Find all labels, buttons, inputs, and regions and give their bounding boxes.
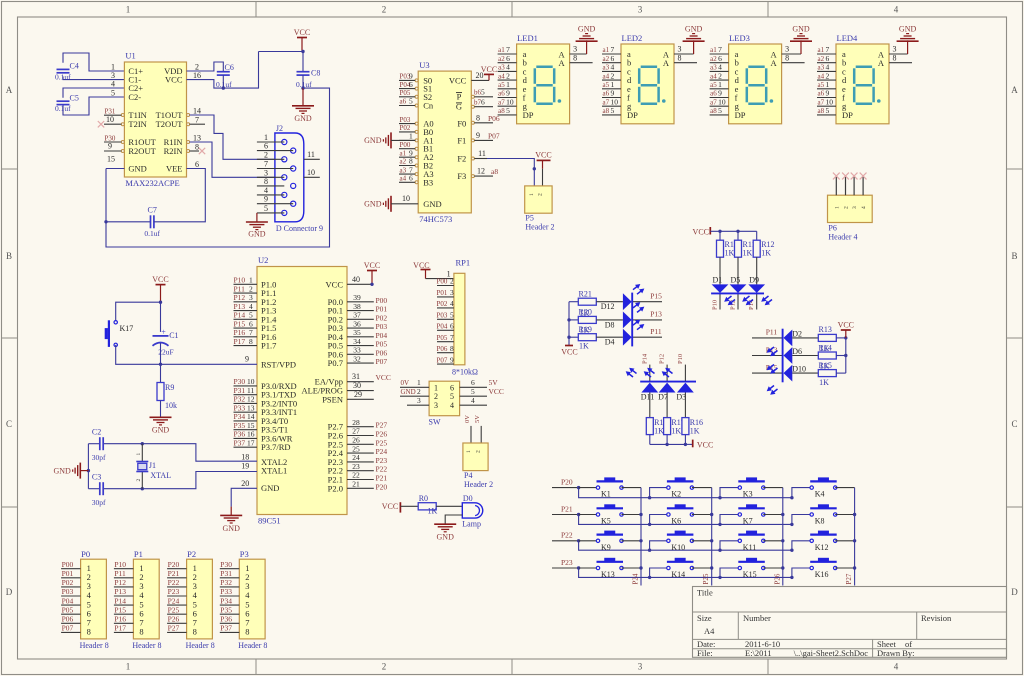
svg-text:6: 6: [409, 174, 413, 183]
svg-text:P31: P31: [234, 386, 246, 395]
svg-text:GND: GND: [53, 466, 71, 475]
svg-text:4: 4: [471, 396, 475, 405]
svg-text:D Connector 9: D Connector 9: [276, 224, 323, 233]
J2 pin stubs: [257, 133, 320, 213]
svg-text:D: D: [6, 587, 13, 597]
switch K5: [579, 504, 624, 525]
svg-text:1K: 1K: [820, 362, 830, 371]
svg-text:Title: Title: [697, 588, 713, 598]
svg-text:8: 8: [893, 53, 897, 62]
wire C4 to U1 pin1: [63, 53, 124, 71]
node P12 at D7: [659, 354, 668, 382]
wire K15 to column: [763, 566, 784, 569]
svg-text:VCC: VCC: [693, 227, 709, 236]
dip switch SW: [429, 381, 460, 426]
svg-text:P01: P01: [62, 569, 74, 578]
wire C8 junction to right GND leg: [106, 88, 330, 247]
wire K2 to column: [692, 487, 712, 489]
svg-text:GND: GND: [364, 136, 382, 145]
svg-text:1: 1: [529, 193, 535, 196]
svg-text:F0: F0: [457, 119, 466, 129]
svg-text:J1: J1: [149, 461, 156, 470]
svg-text:89C51: 89C51: [258, 516, 281, 526]
svg-text:VCC: VCC: [413, 261, 429, 270]
svg-text:1K: 1K: [819, 378, 829, 387]
svg-text:2: 2: [417, 387, 421, 396]
svg-text:K10: K10: [671, 543, 685, 552]
U2 ALE pin stub: [347, 381, 374, 391]
resistor R21: [569, 290, 596, 306]
svg-text:P00: P00: [62, 560, 74, 569]
header P1: [132, 549, 161, 650]
svg-text:3: 3: [852, 206, 858, 209]
svg-text:P21: P21: [376, 474, 388, 483]
svg-text:P11: P11: [766, 328, 778, 337]
svg-text:74HC573: 74HC573: [419, 214, 452, 224]
header P0: [80, 549, 109, 650]
svg-text:10k: 10k: [165, 401, 177, 410]
svg-text:1K: 1K: [654, 427, 664, 436]
node P10 at D3: [677, 354, 686, 382]
svg-text:3: 3: [678, 45, 682, 54]
svg-text:30pf: 30pf: [92, 453, 106, 462]
wire row P23 routing: [579, 568, 812, 579]
svg-text:P36: P36: [220, 615, 232, 624]
svg-text:P27: P27: [845, 573, 853, 584]
svg-text:P12: P12: [659, 354, 666, 364]
svg-text:0V: 0V: [464, 415, 471, 423]
U1 pin numbers left: [107, 63, 115, 164]
svg-text:P21: P21: [561, 504, 573, 513]
svg-text:5V: 5V: [489, 378, 499, 387]
svg-text:30pf: 30pf: [92, 498, 106, 507]
wire C7 right to U1 VEE pin6: [154, 169, 205, 222]
svg-text:A: A: [6, 85, 13, 95]
LED3 pin8 stub: [782, 53, 805, 62]
svg-text:22: 22: [352, 471, 360, 480]
ground GND under R9: [150, 416, 172, 418]
svg-text:6: 6: [450, 322, 454, 331]
svg-text:P34: P34: [220, 596, 232, 605]
switch K13: [579, 558, 624, 579]
svg-text:a4: a4: [603, 72, 610, 80]
svg-text:K5: K5: [601, 517, 611, 526]
svg-text:10: 10: [106, 115, 114, 124]
SW left pin stubs: [400, 378, 429, 405]
svg-text:1: 1: [126, 662, 131, 672]
svg-text:F2: F2: [457, 154, 466, 164]
svg-text:P13: P13: [234, 302, 246, 311]
svg-text:a3: a3: [818, 64, 825, 72]
wire K17 C1 to RST: [116, 343, 257, 383]
svg-text:1: 1: [409, 132, 413, 141]
svg-text:18: 18: [241, 453, 249, 462]
svg-text:D9: D9: [749, 275, 759, 284]
LED4 left pin stubs: [817, 45, 836, 115]
led D10: [784, 365, 806, 382]
svg-text:8: 8: [264, 177, 268, 186]
header P2 pin stubs: [167, 560, 187, 633]
svg-text:P11: P11: [114, 569, 126, 578]
led D6: [784, 347, 802, 364]
svg-text:P3: P3: [240, 549, 249, 559]
wire R9 to GND: [160, 401, 162, 418]
power VCC above K17: [160, 285, 162, 303]
wire LED3 pin3 to GND: [782, 40, 801, 54]
svg-text:1K: 1K: [580, 326, 590, 335]
capacitor C2: [92, 428, 106, 462]
wire column P27: [845, 488, 855, 586]
svg-text:4: 4: [506, 63, 510, 72]
svg-text:8: 8: [139, 627, 143, 637]
svg-text:9: 9: [826, 89, 830, 98]
wire VCC rail right LED group: [838, 321, 854, 374]
U2 XTAL pin numbers: [241, 453, 249, 471]
node P12: [730, 294, 739, 310]
svg-text:Header 2: Header 2: [525, 222, 554, 231]
header P0 pin stubs: [61, 560, 81, 633]
svg-text:5: 5: [471, 387, 475, 396]
title block: [693, 587, 1007, 659]
svg-text:VCC: VCC: [326, 279, 344, 289]
svg-text:VCC: VCC: [535, 151, 551, 160]
resistor R18: [646, 393, 667, 445]
svg-text:D11: D11: [641, 392, 654, 401]
ground GND left of crystal: [79, 463, 81, 479]
svg-text:P12: P12: [234, 293, 246, 302]
capacitor C8: [296, 69, 320, 89]
svg-text:4: 4: [826, 63, 830, 72]
node P15: [633, 292, 662, 302]
svg-text:Revision: Revision: [921, 613, 952, 623]
svg-text:5V: 5V: [474, 415, 481, 423]
svg-text:VCC: VCC: [449, 75, 467, 85]
LED4 pin8 stub: [889, 53, 912, 62]
svg-text:C: C: [6, 419, 12, 429]
svg-text:a6: a6: [603, 90, 610, 98]
svg-text:D4: D4: [605, 338, 615, 347]
led cathode bar left group: [631, 293, 633, 347]
svg-text:K17: K17: [120, 324, 134, 333]
svg-text:1K: 1K: [671, 427, 681, 436]
svg-text:R2OUT: R2OUT: [128, 146, 156, 156]
node P21: [552, 504, 580, 516]
svg-text:14: 14: [247, 412, 255, 421]
P6 pin stubs with no-connect: [833, 173, 867, 196]
power VCC at U3 pin20: [471, 65, 497, 80]
svg-text:GND: GND: [401, 388, 416, 396]
lamp D0: [462, 494, 482, 529]
svg-text:GND: GND: [792, 25, 810, 34]
wire K10 to column: [692, 539, 714, 542]
switch K3: [738, 477, 765, 498]
svg-text:K7: K7: [743, 517, 753, 526]
svg-text:P00: P00: [437, 278, 448, 286]
svg-text:F3: F3: [457, 171, 466, 181]
svg-text:9: 9: [245, 355, 249, 364]
svg-text:3: 3: [249, 293, 253, 302]
wire LED2 pin3 to GND: [674, 40, 694, 54]
svg-text:C4: C4: [70, 62, 79, 71]
svg-text:16: 16: [247, 430, 255, 439]
svg-text:a2: a2: [818, 55, 825, 63]
svg-text:3: 3: [417, 396, 421, 405]
svg-text:DP: DP: [842, 110, 853, 120]
svg-text:GND: GND: [128, 164, 146, 174]
svg-text:P23: P23: [561, 558, 573, 567]
svg-text:1: 1: [834, 206, 840, 209]
svg-text:9: 9: [611, 89, 615, 98]
svg-text:P36: P36: [234, 430, 246, 439]
svg-text:K13: K13: [601, 570, 615, 579]
op-amp U1 body: [121, 51, 189, 189]
svg-text:SW: SW: [429, 417, 441, 426]
svg-text:5: 5: [826, 106, 830, 115]
svg-text:P01: P01: [376, 305, 388, 314]
svg-text:a1: a1: [400, 149, 407, 157]
wire U1 VDD to C6 top: [187, 62, 224, 72]
svg-text:38: 38: [353, 302, 361, 311]
svg-text:5: 5: [249, 311, 253, 320]
svg-text:10: 10: [611, 97, 619, 106]
svg-text:4: 4: [611, 63, 615, 72]
switch K8: [810, 504, 837, 525]
resistor R9: [157, 383, 177, 411]
led cathode bar right group: [782, 329, 784, 383]
node P22: [552, 531, 580, 543]
svg-text:34: 34: [353, 337, 361, 346]
U2 EA pin stub net VCC: [347, 372, 391, 382]
svg-text:a8: a8: [603, 107, 610, 115]
svg-text:a5: a5: [603, 81, 610, 89]
svg-text:VCC: VCC: [489, 387, 504, 396]
svg-text:8: 8: [245, 627, 249, 637]
header P3 pin stubs: [220, 560, 240, 633]
svg-text:P34: P34: [234, 412, 246, 421]
capacitor C5: [55, 94, 79, 114]
capacitor C1 electrolytic: [153, 327, 179, 356]
svg-text:4: 4: [249, 302, 253, 311]
svg-text:a1: a1: [710, 46, 717, 54]
svg-text:10: 10: [506, 97, 514, 106]
svg-text:P22: P22: [376, 465, 388, 474]
svg-text:31: 31: [352, 372, 360, 381]
svg-text:7: 7: [195, 116, 199, 125]
svg-text:P25: P25: [376, 438, 388, 447]
svg-text:P07: P07: [376, 357, 388, 366]
ground GND above LED4: [897, 25, 919, 42]
svg-text:6: 6: [450, 383, 454, 392]
svg-text:a6: a6: [710, 90, 717, 98]
svg-text:VCC: VCC: [697, 440, 713, 449]
svg-text:5: 5: [409, 97, 413, 106]
svg-text:1: 1: [506, 80, 510, 89]
resistor R11: [735, 231, 756, 257]
led D1: [712, 257, 729, 293]
power VCC at top LED group: [693, 227, 757, 236]
svg-text:27: 27: [352, 427, 360, 436]
svg-text:1: 1: [611, 80, 615, 89]
svg-text:a2: a2: [710, 55, 717, 63]
wire GND leg crystal: [80, 444, 90, 489]
led D9: [748, 257, 765, 293]
resistor R19: [569, 325, 596, 341]
svg-text:J2: J2: [276, 124, 283, 133]
svg-text:0.1uf: 0.1uf: [55, 72, 71, 81]
svg-text:a4: a4: [498, 72, 505, 80]
svg-text:P10: P10: [712, 300, 719, 310]
svg-text:P32: P32: [220, 578, 232, 587]
svg-text:D12: D12: [601, 302, 615, 311]
U1 pin T2OUT stub: [190, 123, 206, 125]
wire U1 GND pin15: [104, 169, 124, 224]
svg-text:P03: P03: [376, 322, 388, 331]
switch K4: [810, 477, 837, 498]
display LED3: [729, 33, 782, 124]
svg-text:4: 4: [718, 63, 722, 72]
svg-text:1K: 1K: [690, 427, 700, 436]
svg-text:8: 8: [87, 627, 91, 637]
svg-text:GND: GND: [685, 25, 703, 34]
power VCC at U2 pin40: [347, 261, 380, 286]
svg-text:2: 2: [264, 150, 268, 159]
wire K12 to column: [835, 539, 856, 542]
display LED1: [517, 33, 570, 124]
svg-text:7: 7: [826, 45, 830, 54]
header P3: [238, 549, 267, 650]
ground GND under J2: [246, 221, 268, 223]
node P14: [748, 294, 757, 310]
svg-text:A4: A4: [704, 626, 715, 636]
svg-text:36: 36: [353, 319, 361, 328]
svg-text:8*10kΩ: 8*10kΩ: [452, 368, 478, 377]
svg-text:2: 2: [382, 5, 387, 15]
svg-text:5: 5: [450, 392, 454, 401]
node P11 at D2: [752, 328, 782, 338]
svg-text:40: 40: [352, 275, 360, 284]
U3 pin G stub: [474, 98, 493, 107]
svg-text:13: 13: [247, 403, 255, 412]
svg-text:P26: P26: [376, 430, 388, 439]
svg-text:12: 12: [247, 395, 255, 404]
svg-text:VCC: VCC: [364, 261, 380, 270]
svg-text:7: 7: [264, 160, 268, 169]
wire VCC rail left LED group: [561, 302, 577, 357]
svg-text:2: 2: [136, 479, 142, 482]
svg-text:P37: P37: [220, 624, 232, 633]
led arrows middle group: [624, 366, 674, 379]
svg-text:9: 9: [264, 195, 268, 204]
LED3 left pin stubs: [710, 45, 729, 115]
svg-text:A: A: [663, 58, 670, 68]
svg-text:2: 2: [611, 71, 615, 80]
svg-text:P24: P24: [168, 596, 180, 605]
wire LED1 pin3 to GND: [570, 40, 587, 54]
U2 RST pin stub: [245, 355, 249, 364]
U2 P3 pin stubs: [234, 377, 258, 447]
svg-text:C8: C8: [311, 69, 320, 78]
svg-text:P30: P30: [234, 377, 246, 386]
svg-text:a1: a1: [498, 46, 505, 54]
mcu U2 body: [257, 255, 347, 526]
wire J2 pin5 to GND: [256, 213, 258, 222]
display LED2: [621, 33, 674, 124]
svg-text:A: A: [771, 58, 778, 68]
J2 right stub 10: [304, 176, 320, 178]
wire column P24: [632, 488, 642, 586]
svg-text:a7: a7: [498, 98, 505, 106]
svg-text:GND: GND: [578, 25, 596, 34]
wire C6 junction: [222, 75, 225, 90]
svg-text:C3: C3: [92, 473, 101, 482]
svg-text:A: A: [559, 58, 566, 68]
svg-text:26: 26: [352, 436, 360, 445]
wire K5 to column: [622, 513, 643, 516]
svg-text:2: 2: [450, 277, 454, 286]
power VCC at P5: [535, 151, 551, 186]
ground GND under C8: [292, 105, 314, 107]
svg-text:a3: a3: [498, 64, 505, 72]
svg-text:B: B: [6, 251, 12, 261]
svg-text:P12: P12: [114, 578, 126, 587]
svg-text:P14: P14: [641, 353, 648, 364]
wire K1 to column: [622, 487, 642, 489]
svg-text:13: 13: [193, 134, 201, 143]
svg-text:F1: F1: [457, 135, 466, 145]
svg-text:File:: File:: [697, 648, 713, 658]
svg-text:24: 24: [352, 453, 360, 462]
svg-text:P21: P21: [168, 569, 180, 578]
svg-text:P16: P16: [234, 328, 246, 337]
U1 pin R2IN stub: [190, 148, 206, 154]
svg-text:B: B: [1011, 251, 1017, 261]
svg-text:K8: K8: [815, 517, 825, 526]
U1 pin T1IN net P31: [104, 108, 121, 116]
LED3 segment digit: [747, 67, 773, 104]
svg-text:P05: P05: [62, 605, 74, 614]
svg-text:a1: a1: [818, 46, 825, 54]
svg-text:0.1uf: 0.1uf: [144, 229, 160, 238]
svg-text:16: 16: [193, 71, 201, 80]
wire column P26: [773, 488, 783, 586]
wire C5 to U1 pin4: [63, 88, 124, 98]
svg-text:P14: P14: [234, 311, 246, 320]
resistor R16: [682, 393, 703, 445]
svg-text:1: 1: [136, 453, 142, 456]
svg-text:P15: P15: [234, 319, 246, 328]
svg-text:Header 4: Header 4: [828, 232, 857, 241]
svg-text:P20: P20: [168, 560, 180, 569]
switch K17: [105, 320, 134, 347]
U3 pin P stub: [474, 88, 493, 97]
switch K2: [667, 477, 694, 498]
svg-text:K6: K6: [671, 517, 681, 526]
wire C2 top rail: [88, 442, 257, 461]
svg-text:P02: P02: [376, 313, 388, 322]
svg-text:Header 8: Header 8: [186, 641, 215, 650]
svg-text:C: C: [1011, 419, 1017, 429]
wire row P21 routing: [579, 515, 812, 527]
led D2: [784, 329, 802, 346]
svg-text:a3: a3: [400, 166, 407, 174]
node P23: [552, 558, 580, 570]
svg-text:1K: 1K: [761, 249, 771, 258]
wire P4 pin1 net 0V: [464, 415, 471, 443]
svg-text:2: 2: [476, 450, 482, 453]
svg-text:GND: GND: [248, 230, 266, 239]
svg-text:a2: a2: [498, 55, 505, 63]
svg-text:T2OUT: T2OUT: [156, 119, 184, 129]
